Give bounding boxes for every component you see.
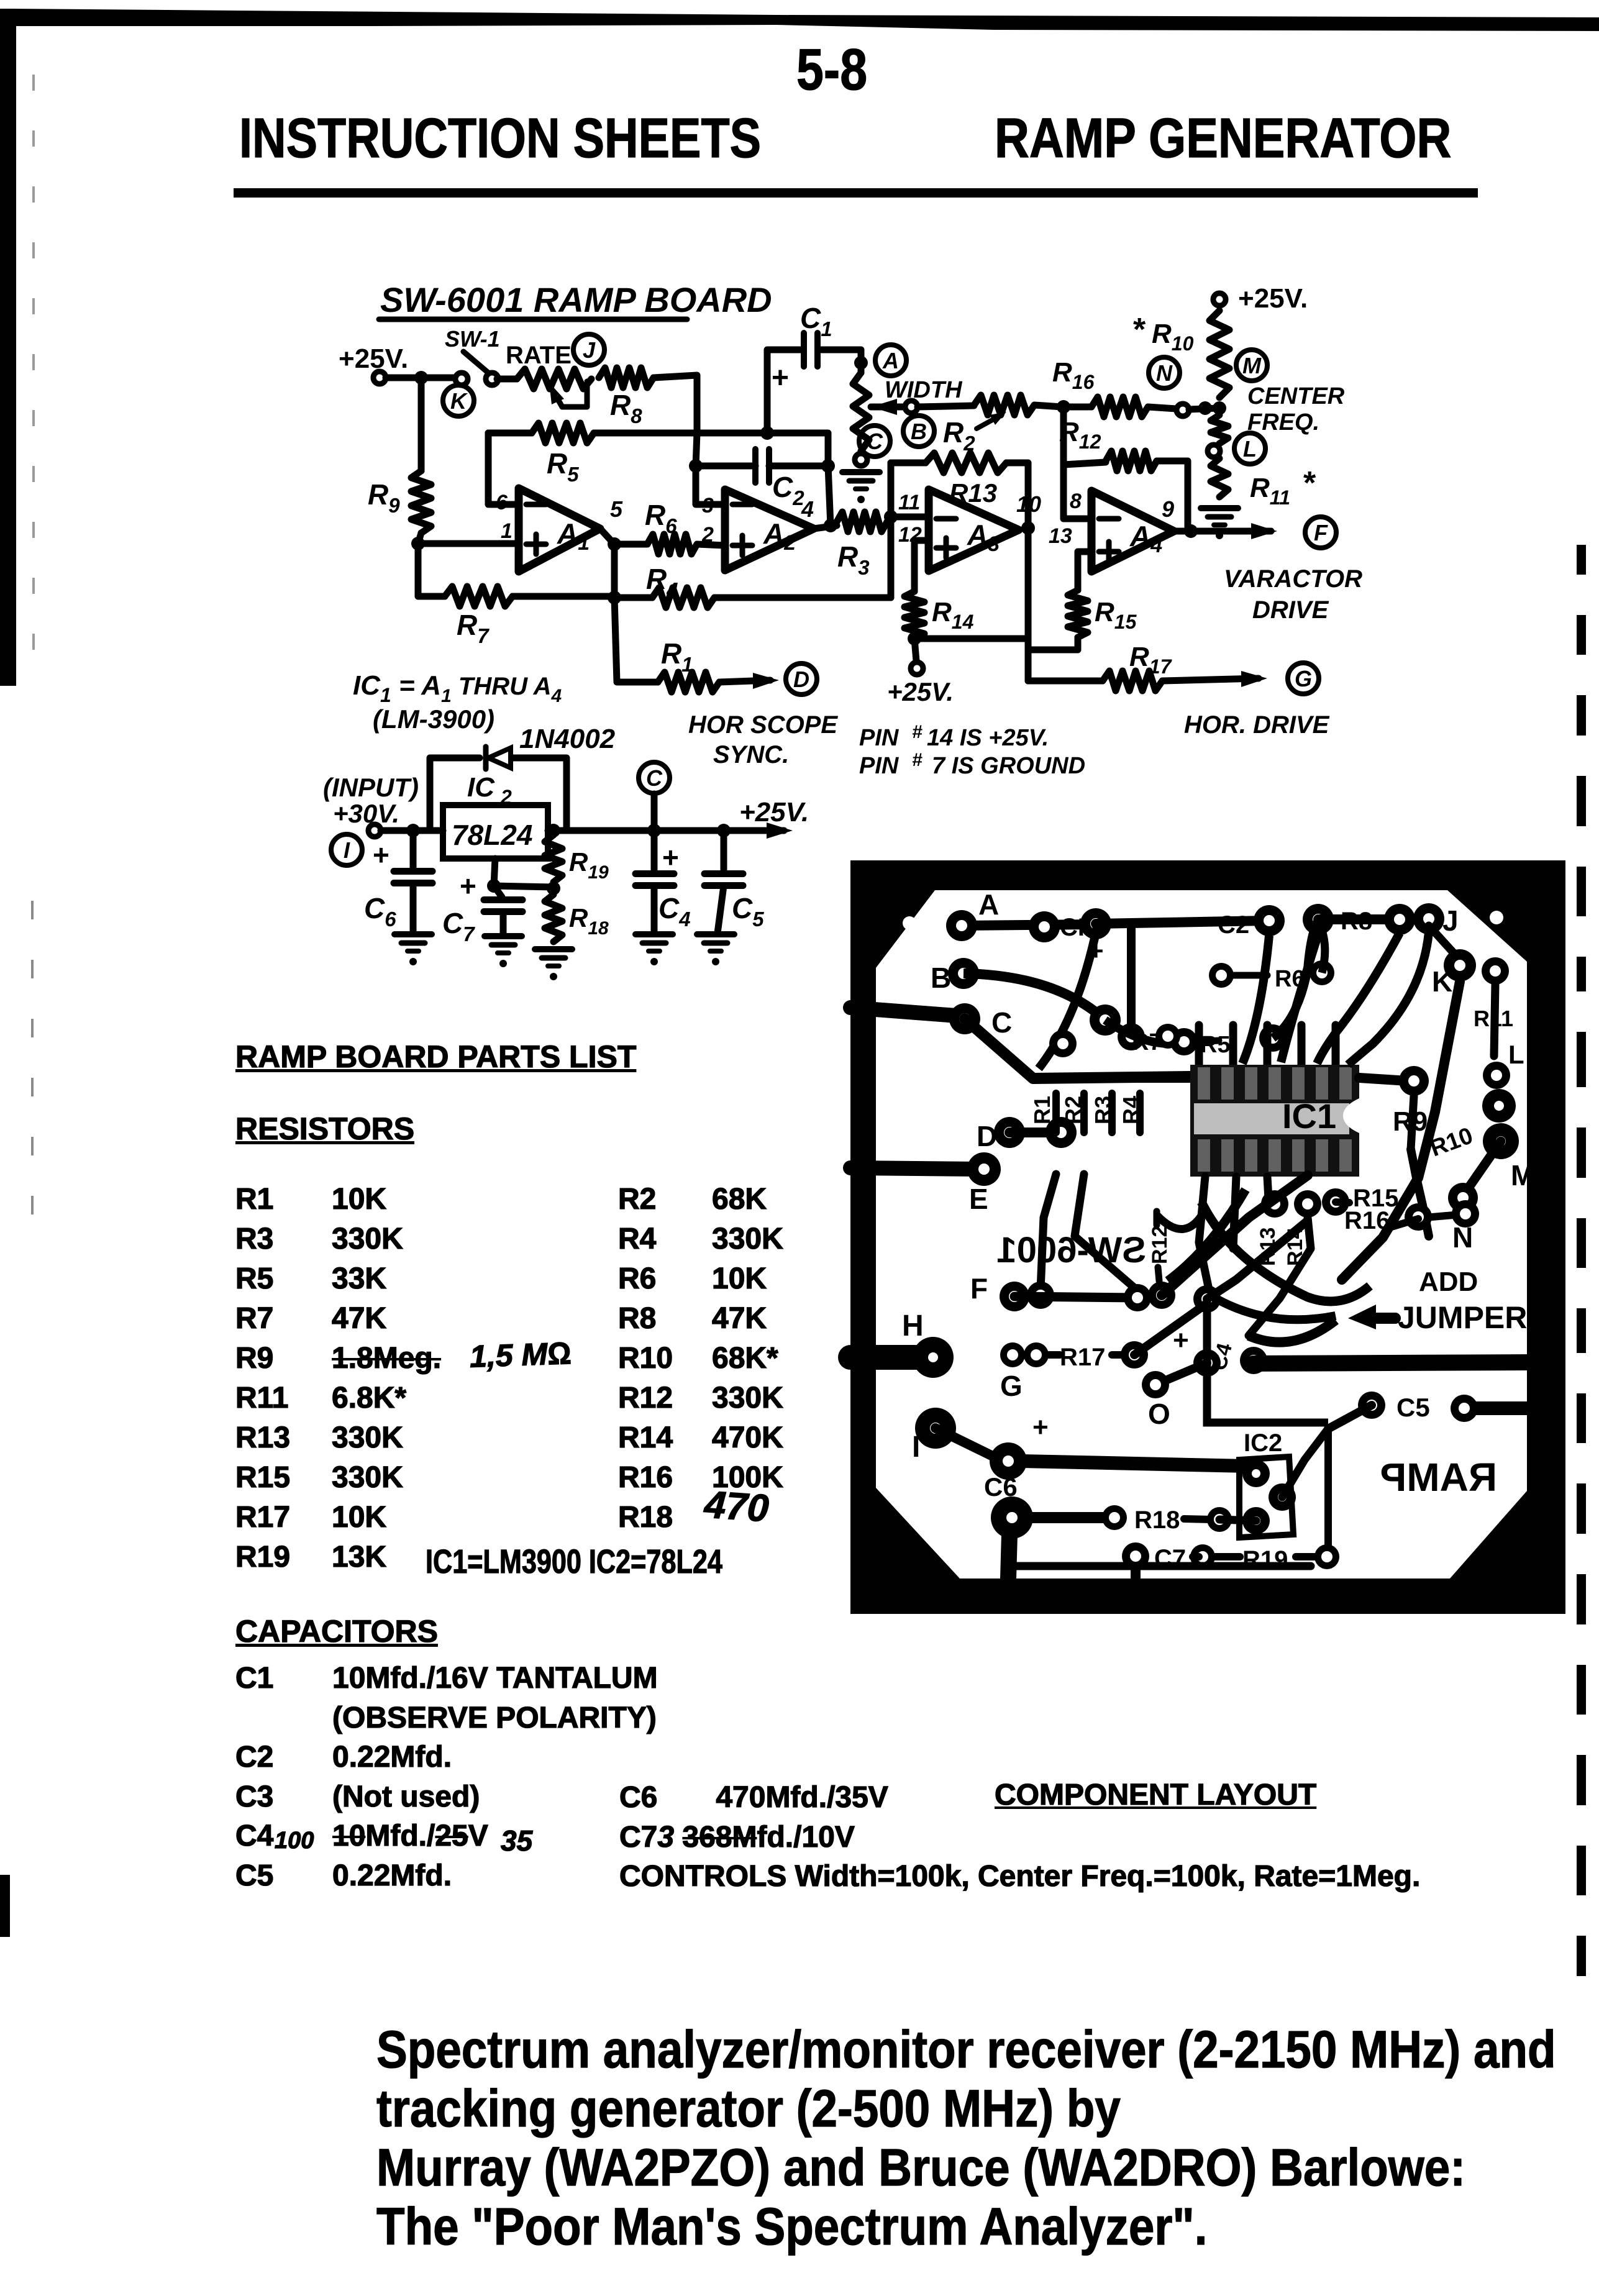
svg-text:D: D [977, 1120, 997, 1152]
pcb pad C5 right [1451, 1395, 1478, 1422]
pcb pad C6 bottom [991, 1496, 1033, 1539]
svg-text:+30V.: +30V. [333, 799, 399, 828]
pcb vertical thin [1327, 1429, 1328, 1557]
resistor R6 [614, 499, 725, 554]
pcb label R19 [1215, 1546, 1317, 1574]
svg-text:*: * [1133, 312, 1146, 348]
node J [573, 334, 604, 365]
resistor R5 [488, 423, 697, 486]
pcb label R16 row [1344, 1200, 1479, 1234]
svg-text:R5: R5 [547, 447, 579, 486]
capacitors subtitle [235, 1613, 438, 1649]
node I terminal [331, 824, 381, 865]
junction A1 output [608, 537, 621, 551]
svg-text:R9: R9 [368, 478, 400, 517]
pcb traces IC1 bottom fan [1041, 1174, 1311, 1336]
pcb trace R17 diagonal [1134, 1303, 1207, 1355]
svg-text:IC2: IC2 [1244, 1429, 1282, 1457]
pcb trace R18 [1031, 1512, 1106, 1523]
wire A4 plus input [1078, 552, 1091, 590]
ground below R11 [1201, 508, 1238, 539]
pcb trace D [1009, 1127, 1061, 1137]
svg-text:+25V.: +25V. [887, 677, 954, 706]
scan artifact: faint left dotted margin [31, 75, 35, 1214]
pcb blob M upper [1483, 1123, 1519, 1159]
wire switch to RATE pot [497, 376, 517, 383]
svg-text:R8: R8 [1341, 908, 1372, 935]
pcb pad K [1432, 949, 1476, 998]
node B terminal on wiper line [905, 401, 918, 413]
junction below R9 [411, 537, 425, 550]
svg-text:J: J [583, 337, 596, 363]
svg-text:SYNC.: SYNC. [713, 741, 789, 768]
wire down to R1 [614, 598, 658, 682]
wire to R9 [418, 378, 425, 471]
svg-text:+25V.: +25V. [739, 797, 809, 827]
wire R7 to node under A1 [512, 593, 614, 600]
svg-text:R12: R12 [1148, 1226, 1172, 1264]
node K [443, 385, 474, 416]
pcb pad C5 left [1358, 1392, 1430, 1422]
svg-text:I: I [912, 1431, 920, 1464]
svg-text:SW-1: SW-1 [445, 326, 500, 352]
capacitor C4 [635, 831, 691, 933]
pcb pad R9 [1399, 1066, 1429, 1096]
pcb trace C diagonal [965, 1019, 1190, 1078]
svg-text:+: + [1173, 1325, 1189, 1355]
pcb trace F diagonal up [1162, 1175, 1308, 1295]
pcb pad F [970, 1272, 1029, 1311]
node D [786, 663, 817, 695]
pcb pad R19 right [1314, 1544, 1339, 1569]
pcb trace R18 b [1184, 1519, 1211, 1519]
pcb pad R8 b [1413, 903, 1444, 934]
pcb trace ic2 r18 [1219, 1519, 1256, 1521]
wire R2 to junction [1034, 405, 1062, 407]
resistor R18 [545, 895, 609, 942]
junction IC2 ground [487, 879, 501, 893]
svg-text:M: M [1242, 353, 1262, 378]
node N [1149, 357, 1180, 388]
svg-text:2: 2 [500, 786, 512, 808]
scan artifact: top edge bar [11, 9, 1599, 31]
handwritten 470 for R18 [703, 1482, 770, 1531]
svg-text:N: N [1452, 1221, 1473, 1254]
resistor R11 (lower half of chain) [1208, 415, 1316, 509]
capacitor C2 [696, 449, 828, 509]
junction C2 right [821, 459, 835, 473]
svg-text:8: 8 [1070, 490, 1082, 513]
junction rail C4 [647, 824, 661, 837]
pcb label plus C4 [1173, 1325, 1237, 1373]
pcb big diagonal K to N [1342, 982, 1460, 1280]
svg-text:14 IS +25V.: 14 IS +25V. [927, 725, 1049, 751]
pcb pad C2 b [1303, 904, 1334, 935]
pcb trace C7 down [1131, 1570, 1141, 1578]
wire A4 output arrow [1174, 523, 1277, 539]
capacitor table: labels [235, 1659, 273, 1895]
pcb blob L2 [1482, 1089, 1516, 1123]
resistor R19 [545, 831, 609, 883]
wire A3 plus input to R14 [914, 540, 929, 591]
node A [875, 345, 906, 376]
handwritten 1,5 Mohm correction [469, 1335, 572, 1375]
resistor R17 [1028, 642, 1173, 691]
svg-text:C2: C2 [772, 471, 804, 509]
svg-text:C5: C5 [1396, 1393, 1430, 1422]
svg-text:5: 5 [610, 496, 623, 522]
pcb trace K2 to L [1494, 985, 1495, 1056]
resistor R8 [599, 368, 654, 427]
svg-text:R16: R16 [1344, 1207, 1390, 1234]
scan artifact: left edge bar lower [0, 1875, 10, 1937]
svg-text:RAMP: RAMP [1380, 1455, 1497, 1500]
svg-text:C2: C2 [1218, 911, 1249, 939]
svg-text:O: O [1148, 1398, 1170, 1430]
pcb pads F right [1124, 1282, 1175, 1311]
svg-text:9: 9 [1162, 496, 1174, 522]
wire R4 feedback right vertical [888, 463, 895, 598]
width pot bottom terminal [855, 453, 867, 466]
pcb label C6 [984, 1472, 1018, 1501]
svg-text:A: A [978, 888, 999, 921]
pcb label R2 vertical [1060, 1096, 1086, 1124]
wire R17 arrow [1162, 671, 1267, 687]
capacitor table: values [332, 1659, 658, 1895]
svg-text:B: B [911, 419, 927, 444]
junction R3 node [884, 510, 898, 524]
wire R12 branch vertical [1064, 407, 1091, 519]
page number 5-8 [796, 36, 867, 103]
svg-text:R18: R18 [1134, 1506, 1180, 1534]
pcb label R7 row [1132, 1024, 1180, 1055]
pcb pad E [967, 1152, 1001, 1215]
svg-text:IC1 = A1 THRU A4: IC1 = A1 THRU A4 [353, 670, 562, 706]
resistor R4 [614, 563, 891, 608]
pcb central curves [1157, 932, 1429, 1301]
svg-text:I: I [344, 837, 350, 863]
svg-text:C: C [867, 429, 883, 454]
pcb diagonal from R9 to jumper [1411, 1149, 1429, 1236]
pcb trace C5 to border [1477, 1401, 1528, 1415]
diode 1N4002 bypass loop [430, 724, 616, 831]
svg-text:C: C [991, 1006, 1012, 1039]
pcb outer black frame [850, 860, 1565, 1614]
svg-text:R14: R14 [932, 597, 974, 633]
pcb label C2 [1218, 911, 1249, 939]
pcb left stub to C [850, 1008, 965, 1016]
handwritten 35 for C4 [501, 1824, 532, 1857]
svg-text:C4: C4 [658, 892, 691, 931]
svg-text:R15: R15 [1095, 597, 1137, 633]
svg-text:13: 13 [1049, 524, 1072, 548]
label CENTER FREQ [1247, 383, 1345, 435]
pcb pads IC1 bottom row [1261, 1188, 1349, 1218]
pcb mirrored silk RAMP [1380, 1455, 1497, 1500]
svg-text:+25V.: +25V. [339, 344, 408, 374]
pcb label R4 vertical [1118, 1096, 1144, 1124]
pcb ic2 pads [1242, 1460, 1296, 1534]
wire N to center-freq chain [1189, 408, 1218, 409]
pcb label R9 [1393, 1106, 1428, 1137]
pcb pad H [902, 1310, 954, 1378]
junction A4 output [1184, 524, 1198, 538]
pcb pads mid fan [1027, 1282, 1054, 1309]
pcb left stub to H [850, 1345, 929, 1370]
label INPUT +30V [323, 773, 419, 828]
pcb corner pad bottom-right [1494, 1545, 1508, 1559]
svg-text:R2: R2 [943, 416, 975, 455]
pcb pad K2 [1482, 957, 1509, 985]
wire R5 left vertical [488, 433, 519, 504]
wire R15 bottom [1028, 637, 1078, 650]
svg-text:R19: R19 [569, 847, 609, 883]
junction under A1 [608, 591, 621, 604]
pcb pads R17 [1000, 1342, 1128, 1371]
junction rail C [547, 824, 560, 837]
pcb label R6 row [1209, 921, 1334, 992]
pcb trace C1 to C2 [1096, 921, 1269, 924]
pcb label R10 [1427, 1123, 1477, 1162]
resistor table: left labels [235, 1180, 290, 1577]
junction at width pot top [854, 356, 868, 370]
resistor R1 [658, 637, 719, 692]
junction R19 R18 [547, 881, 560, 895]
node N terminal [1177, 404, 1189, 416]
svg-text:R8: R8 [610, 389, 642, 427]
op-amp A4 [1049, 490, 1174, 572]
heading INSTRUCTION SHEETS [239, 107, 761, 171]
svg-text:R10: R10 [1152, 319, 1194, 355]
op-amp A3 [898, 490, 1041, 571]
pcb traces into IC1 left [1033, 1078, 1190, 1132]
pcb pad under curve [1049, 1030, 1077, 1057]
pcb inner board area [876, 890, 1527, 1578]
pcb label R13 vertical [1256, 1228, 1280, 1266]
ground below C4 [635, 934, 673, 965]
pcb trace F [1014, 1296, 1137, 1298]
pcb trace C4 to O [1155, 1363, 1207, 1385]
wire down to R7 [418, 544, 445, 596]
pcb ic2 outline [1239, 1429, 1293, 1537]
wire R3 node to A3 minus [891, 514, 929, 521]
svg-text:R6: R6 [645, 499, 677, 537]
pcb pad C2 a [1254, 905, 1285, 936]
pcb pad C4 junction [1193, 1349, 1221, 1377]
junction C2 left [689, 459, 703, 473]
pcb bottom border inner trace [1013, 1562, 1311, 1570]
pcb jumper curves [1210, 1295, 1336, 1342]
svg-text:4: 4 [801, 496, 814, 522]
handwritten 100 for C4 [275, 1828, 314, 1854]
svg-text:PIN: PIN [859, 753, 900, 779]
schematic title SW-6001 RAMP BOARD [379, 280, 772, 319]
pcb pad R18 right [1207, 1507, 1232, 1532]
pcb pad C1 plus [1080, 908, 1111, 965]
pcb bottom-right corner blob [1450, 1491, 1527, 1578]
pcb label N [1452, 1221, 1473, 1254]
switch SW-1 [445, 326, 500, 385]
wire R1 arrow to D [719, 673, 779, 689]
svg-text:R18: R18 [569, 903, 609, 939]
pcb pad B curve end [1090, 1004, 1121, 1036]
svg-text:C: C [646, 765, 663, 791]
resistor R10 (upper half of chain) [1133, 311, 1229, 398]
wire top line to C2 right [697, 433, 828, 466]
pcb pad D a [977, 1117, 1025, 1152]
pcb label R12 vertical [1148, 1211, 1172, 1281]
svg-text:+: + [662, 841, 679, 873]
pcb corner pad top-right [1490, 911, 1503, 924]
svg-text:ADD: ADD [1419, 1267, 1478, 1297]
svg-text:R7: R7 [1132, 1029, 1162, 1055]
wire input to IC2 [381, 827, 443, 834]
ground below C5 [697, 934, 734, 965]
pcb corner pad bottom-left [905, 1554, 919, 1567]
svg-text:L: L [1508, 1040, 1524, 1069]
resistor R14 [904, 591, 974, 639]
svg-text:IC: IC [467, 772, 495, 803]
svg-text:C7: C7 [442, 907, 475, 945]
junction A2 output [824, 519, 837, 532]
svg-text:CENTER: CENTER [1247, 383, 1345, 409]
wire IC2 output rail [548, 797, 809, 839]
label HOR SCOPE SYNC [688, 711, 838, 768]
svg-text:R3: R3 [837, 540, 870, 579]
IC note [426, 1542, 722, 1581]
svg-text:C5: C5 [732, 892, 764, 931]
svg-text:78L24: 78L24 [452, 819, 532, 851]
svg-text:A2: A2 [763, 517, 796, 555]
pcb trace C6 to IC2 [1023, 1461, 1247, 1466]
pcb pad C7 left [1122, 1542, 1186, 1572]
pcb trace A to C1 [962, 924, 1096, 926]
capacitor table: right column [619, 1778, 1420, 1897]
svg-text:#: # [912, 722, 922, 742]
pcb label R1 vertical [1029, 1096, 1055, 1124]
label PIN14/PIN7 note [859, 722, 1085, 779]
svg-text:N: N [1156, 360, 1173, 386]
op-amp A2 [701, 490, 814, 570]
pcb pad C4 right [1240, 1347, 1267, 1374]
potentiometer RATE [506, 342, 591, 407]
svg-text:+: + [1032, 1412, 1049, 1442]
heading rule [234, 188, 1478, 198]
pcb label R11 [1474, 1006, 1513, 1031]
pcb pad A [946, 888, 999, 941]
capacitor C1 [767, 302, 861, 433]
ic IC1 body [1190, 1065, 1359, 1177]
pcb left stub to E [850, 1168, 980, 1169]
pcb trace J to K [1429, 926, 1460, 960]
parts list title [235, 1039, 636, 1075]
pcb trace C2 to R8 [1318, 914, 1400, 924]
scan artifact: right edge dashed strip [1577, 545, 1586, 1976]
svg-text:R1: R1 [1029, 1096, 1055, 1124]
svg-text:#: # [912, 750, 922, 770]
pcb label R8 [1341, 908, 1372, 935]
wire +25V rail [386, 375, 460, 381]
junction wiper/R16/R12 [1057, 400, 1070, 414]
svg-text:B: B [931, 962, 951, 994]
resistors subtitle [235, 1111, 414, 1147]
resistor R9 [368, 471, 431, 533]
pcb corner pad top-left [903, 916, 916, 930]
pcb pad O [1142, 1371, 1170, 1430]
pcb trace I to C6 [936, 1428, 994, 1457]
pcb traces into IC1 top [1199, 1025, 1336, 1067]
pcb pad D b [1045, 1117, 1077, 1148]
svg-text:K: K [450, 388, 468, 414]
pcb label ADD JUMPER [1348, 1267, 1527, 1335]
svg-text:R17: R17 [1060, 1344, 1105, 1371]
node F [1305, 517, 1336, 548]
resistor R3 [814, 512, 891, 579]
svg-text:R5: R5 [1200, 1032, 1231, 1058]
pcb pad R18 mid [1102, 1505, 1180, 1534]
resistor table: left values [332, 1180, 441, 1577]
pcb label R15 row [1336, 1185, 1398, 1212]
potentiometer WIDTH [853, 373, 963, 451]
pcb pad M lower [1448, 1159, 1534, 1213]
capacitor C5 [704, 831, 764, 933]
svg-text:6: 6 [496, 491, 508, 514]
svg-text:HOR SCOPE: HOR SCOPE [688, 711, 838, 739]
wiper arrow into width pot [871, 399, 905, 415]
op-amp A1 [496, 488, 623, 572]
resistor R16 [1052, 357, 1176, 417]
junction A3 output [1021, 521, 1035, 535]
svg-text:C6: C6 [364, 892, 396, 931]
wire wiper line [918, 406, 974, 407]
component layout caption [995, 1778, 1316, 1812]
pcb pad R17 right [1121, 1341, 1148, 1369]
bottom caption paragraph [376, 2020, 1556, 2256]
svg-text:D: D [793, 667, 809, 692]
wire R14 to +25V terminal [887, 639, 954, 706]
junction on chain [1198, 401, 1212, 415]
svg-text:+: + [373, 839, 389, 871]
pcb label J [1442, 904, 1459, 937]
label HOR. DRIVE [1184, 711, 1330, 739]
resistor R13 [926, 453, 1006, 508]
wire A1 output down [611, 544, 618, 598]
svg-text:IC1: IC1 [1282, 1096, 1336, 1136]
resistor R7 [445, 586, 512, 647]
pcb pad mid [1118, 1023, 1145, 1050]
ground below width pot [842, 472, 880, 503]
pcb trace R5 curves [1105, 921, 1318, 1058]
svg-text:J: J [1442, 904, 1459, 937]
pcb trace R9 down [1411, 1096, 1414, 1149]
svg-text:SW-6001 RAMP BOARD: SW-6001 RAMP BOARD [380, 280, 772, 319]
svg-text:M: M [1511, 1159, 1534, 1191]
svg-text:+: + [460, 870, 476, 902]
pcb pad above C4 [1193, 1285, 1221, 1313]
label IC1 equals [353, 670, 562, 734]
wire R14 bottom line [914, 635, 1028, 642]
svg-text:A: A [882, 348, 899, 373]
svg-text:F: F [970, 1272, 988, 1305]
resistor R15 [1068, 590, 1137, 637]
svg-text:E: E [969, 1183, 988, 1215]
pcb pad C7 right [1190, 1544, 1215, 1569]
pcb pad B [931, 958, 979, 994]
node M [1236, 350, 1267, 381]
ground below R18 [535, 949, 572, 980]
capacitor C7 [442, 870, 522, 945]
node +25V left terminal [339, 344, 408, 384]
